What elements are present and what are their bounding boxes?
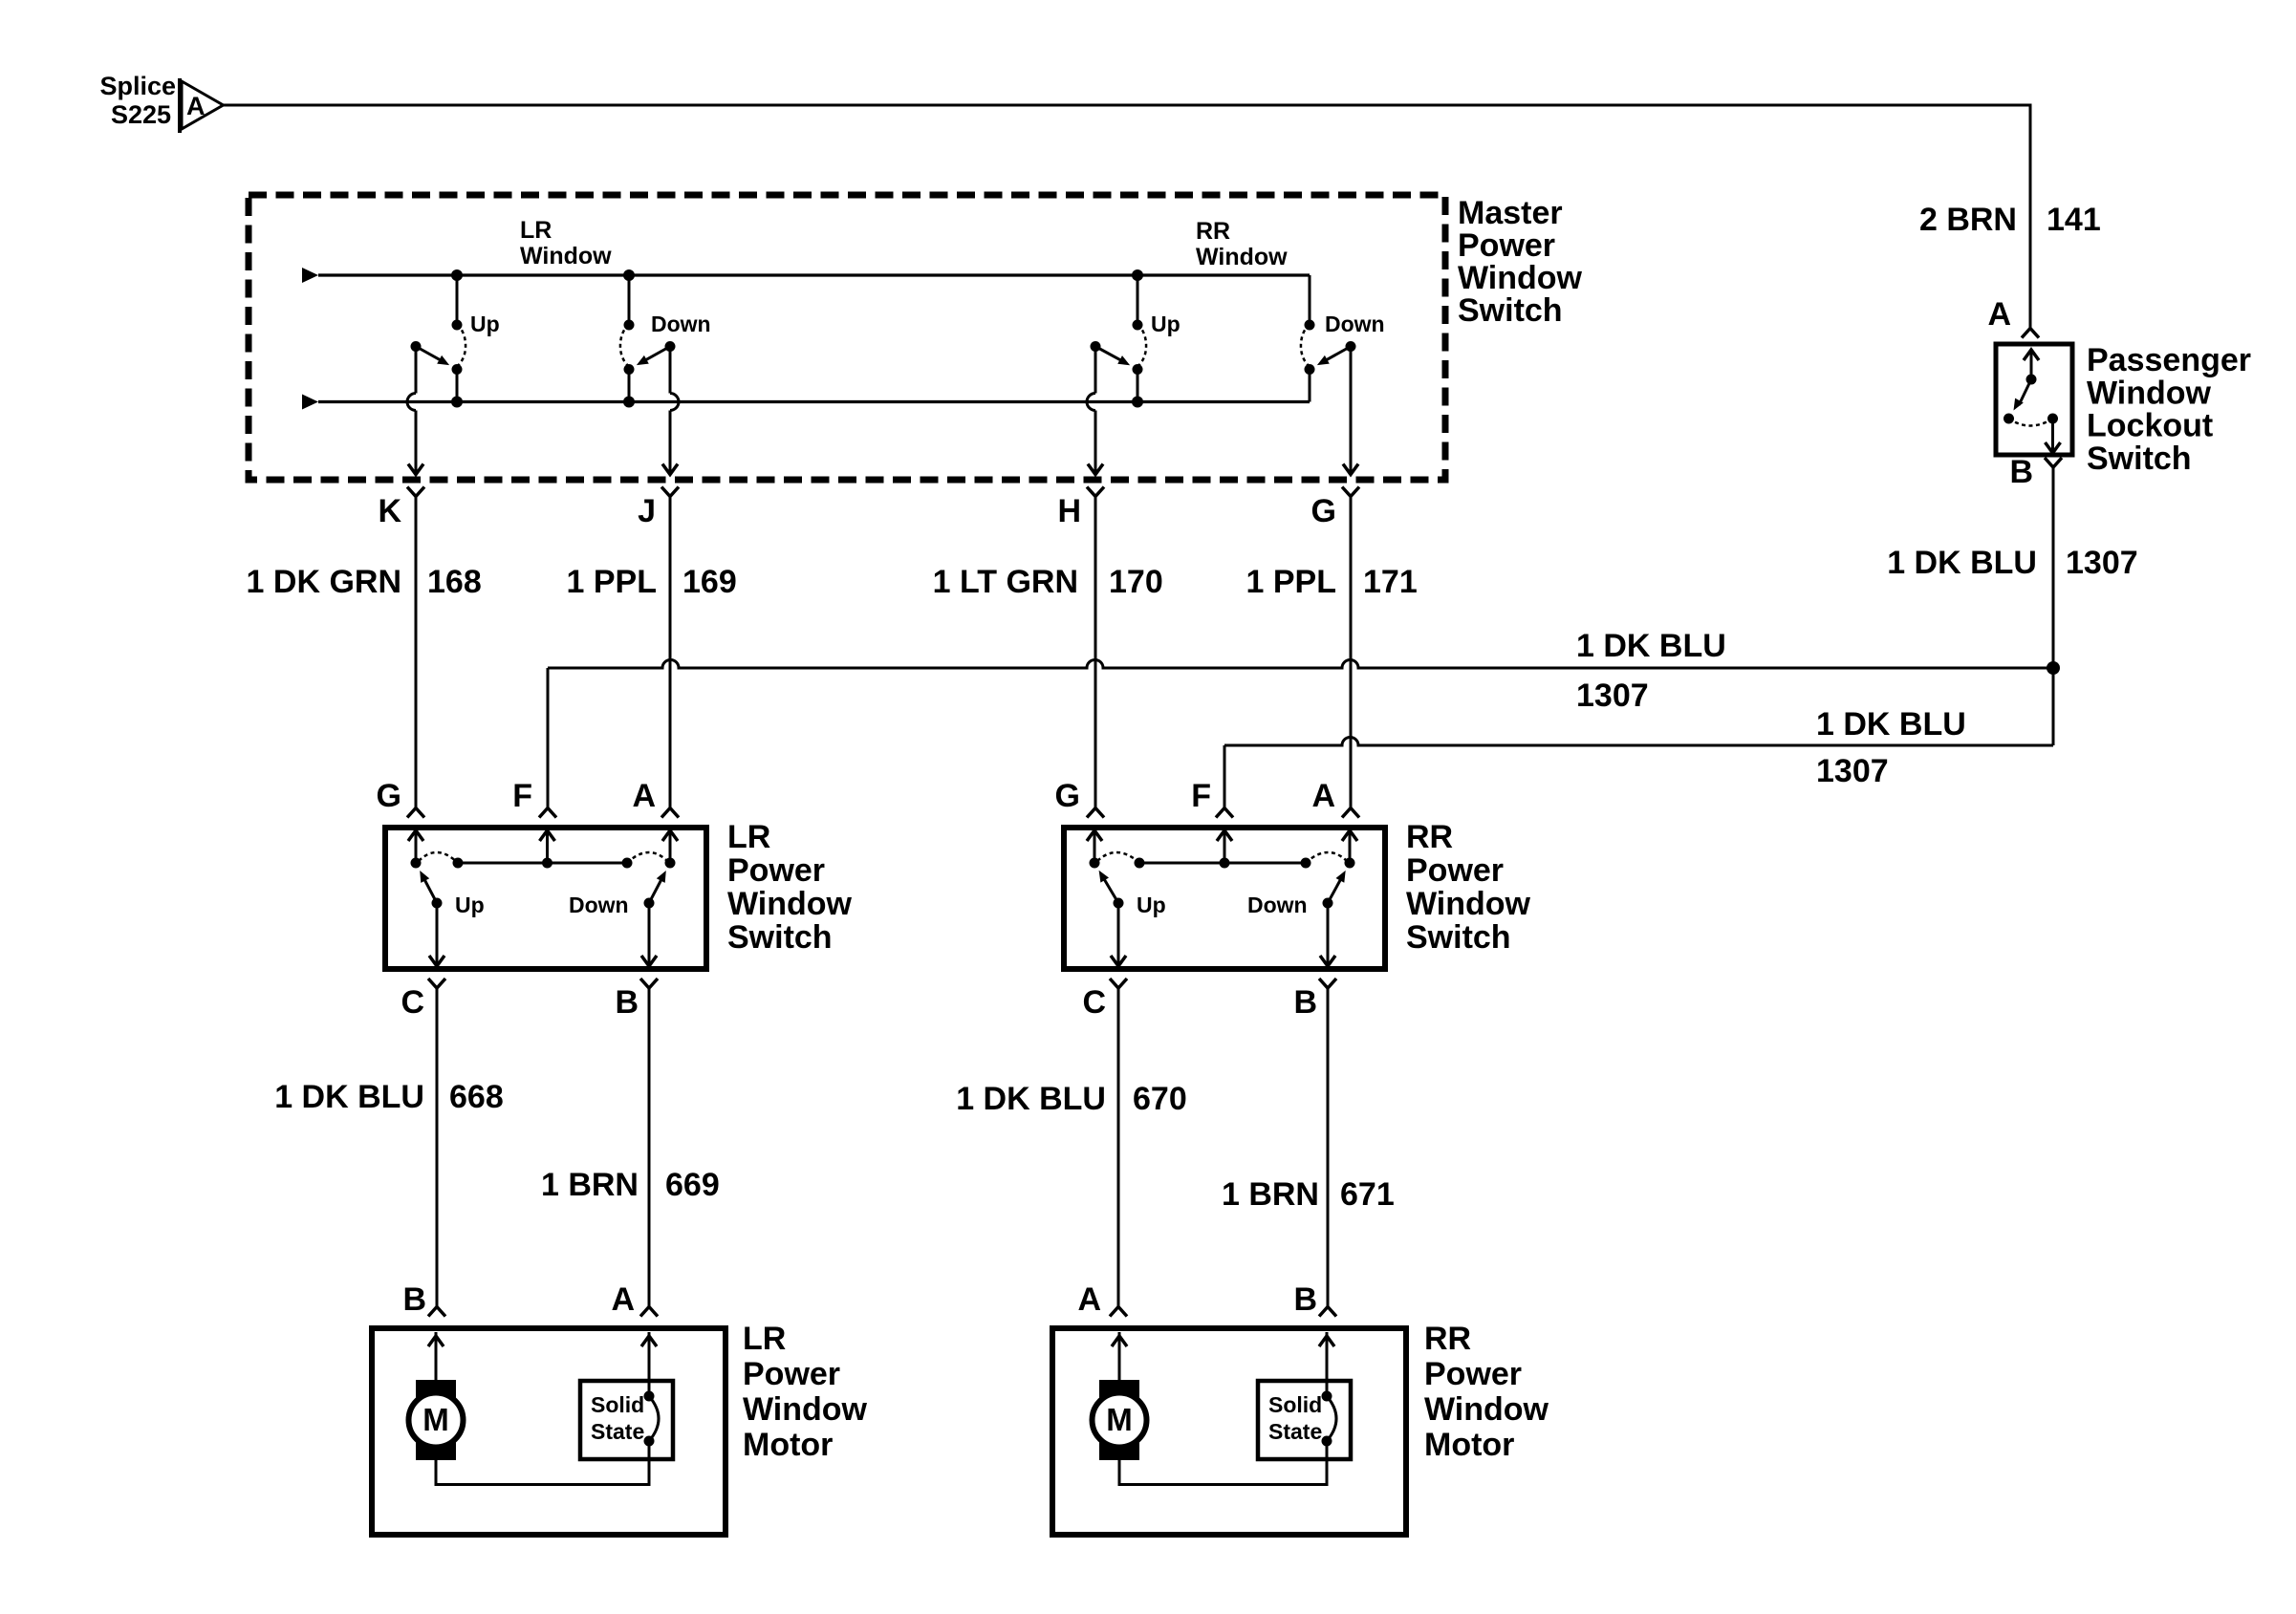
- svg-text:668: 668: [449, 1079, 504, 1115]
- svg-text:Power: Power: [1458, 227, 1555, 264]
- svg-text:C: C: [1082, 984, 1106, 1021]
- svg-text:H: H: [1057, 493, 1081, 529]
- svg-text:1 DK BLU: 1 DK BLU: [956, 1081, 1106, 1117]
- svg-text:B: B: [1293, 1281, 1317, 1318]
- svg-text:1 LT GRN: 1 LT GRN: [933, 564, 1078, 600]
- svg-text:Solid: Solid: [591, 1392, 644, 1417]
- svg-text:1 PPL: 1 PPL: [1246, 564, 1336, 600]
- svg-text:S225: S225: [111, 100, 171, 129]
- svg-text:170: 170: [1109, 564, 1163, 600]
- svg-text:Up: Up: [1151, 312, 1180, 336]
- svg-text:2 BRN: 2 BRN: [1919, 202, 2017, 238]
- svg-text:A: A: [632, 778, 656, 814]
- svg-text:1 DK BLU: 1 DK BLU: [1816, 706, 1966, 742]
- svg-text:1307: 1307: [1576, 678, 1649, 714]
- svg-text:Window: Window: [520, 243, 612, 269]
- svg-text:1 DK GRN: 1 DK GRN: [247, 564, 401, 600]
- svg-text:Switch: Switch: [2087, 441, 2192, 477]
- svg-text:Window: Window: [2087, 375, 2212, 411]
- svg-text:1307: 1307: [1816, 753, 1889, 789]
- svg-text:Switch: Switch: [1406, 919, 1511, 956]
- svg-text:G: G: [377, 778, 401, 814]
- svg-text:671: 671: [1340, 1176, 1395, 1213]
- svg-text:C: C: [401, 984, 424, 1021]
- svg-text:Power: Power: [1406, 852, 1504, 889]
- svg-text:169: 169: [682, 564, 737, 600]
- svg-text:670: 670: [1133, 1081, 1187, 1117]
- svg-text:1 DK BLU: 1 DK BLU: [1887, 545, 2037, 581]
- svg-text:B: B: [615, 984, 639, 1021]
- svg-text:LR: LR: [727, 819, 770, 855]
- svg-text:1 DK BLU: 1 DK BLU: [1576, 628, 1726, 664]
- svg-text:G: G: [1311, 493, 1336, 529]
- svg-text:A: A: [186, 92, 206, 120]
- svg-text:RR: RR: [1406, 819, 1453, 855]
- svg-text:669: 669: [665, 1167, 720, 1203]
- svg-text:Window: Window: [743, 1391, 868, 1428]
- svg-text:A: A: [1077, 1281, 1101, 1318]
- svg-text:LR: LR: [743, 1321, 786, 1357]
- svg-text:1 DK BLU: 1 DK BLU: [274, 1079, 424, 1115]
- svg-text:State: State: [591, 1419, 644, 1444]
- svg-text:Window: Window: [1406, 886, 1531, 922]
- svg-text:Up: Up: [455, 893, 485, 917]
- svg-text:Passenger: Passenger: [2087, 342, 2251, 378]
- svg-text:Up: Up: [1137, 893, 1166, 917]
- svg-text:M: M: [1106, 1402, 1133, 1437]
- svg-text:J: J: [638, 493, 656, 529]
- svg-text:Power: Power: [743, 1356, 840, 1392]
- svg-text:Master: Master: [1458, 195, 1563, 231]
- svg-text:G: G: [1055, 778, 1080, 814]
- svg-text:1307: 1307: [2066, 545, 2138, 581]
- svg-text:Power: Power: [727, 852, 825, 889]
- svg-text:1 BRN: 1 BRN: [1222, 1176, 1319, 1213]
- svg-text:Switch: Switch: [1458, 292, 1563, 329]
- svg-text:Switch: Switch: [727, 919, 833, 956]
- svg-text:Window: Window: [1196, 244, 1288, 270]
- svg-text:M: M: [422, 1402, 449, 1437]
- svg-text:F: F: [512, 778, 532, 814]
- svg-text:LR: LR: [520, 217, 552, 244]
- svg-text:Motor: Motor: [743, 1427, 833, 1463]
- svg-text:168: 168: [427, 564, 482, 600]
- svg-text:Window: Window: [727, 886, 853, 922]
- svg-text:Down: Down: [651, 312, 711, 336]
- svg-text:A: A: [611, 1281, 635, 1318]
- svg-text:B: B: [402, 1281, 426, 1318]
- svg-text:Motor: Motor: [1424, 1427, 1514, 1463]
- svg-text:Lockout: Lockout: [2087, 408, 2213, 444]
- svg-text:Splice: Splice: [99, 72, 176, 100]
- svg-text:RR: RR: [1196, 218, 1230, 245]
- svg-text:Up: Up: [470, 312, 500, 336]
- svg-text:B: B: [1293, 984, 1317, 1021]
- svg-text:1 PPL: 1 PPL: [567, 564, 657, 600]
- svg-text:F: F: [1191, 778, 1211, 814]
- svg-text:B: B: [2009, 454, 2033, 490]
- svg-text:141: 141: [2047, 202, 2101, 238]
- svg-text:A: A: [1987, 296, 2011, 333]
- svg-text:171: 171: [1363, 564, 1418, 600]
- svg-text:State: State: [1268, 1419, 1322, 1444]
- svg-text:K: K: [378, 493, 401, 529]
- svg-text:Down: Down: [1247, 893, 1308, 917]
- svg-text:1 BRN: 1 BRN: [541, 1167, 639, 1203]
- svg-text:Window: Window: [1424, 1391, 1549, 1428]
- svg-text:Down: Down: [1325, 312, 1385, 336]
- svg-text:Down: Down: [569, 893, 629, 917]
- svg-text:Solid: Solid: [1268, 1392, 1322, 1417]
- svg-text:RR: RR: [1424, 1321, 1471, 1357]
- svg-text:Window: Window: [1458, 260, 1583, 296]
- svg-text:Power: Power: [1424, 1356, 1522, 1392]
- svg-text:A: A: [1311, 778, 1335, 814]
